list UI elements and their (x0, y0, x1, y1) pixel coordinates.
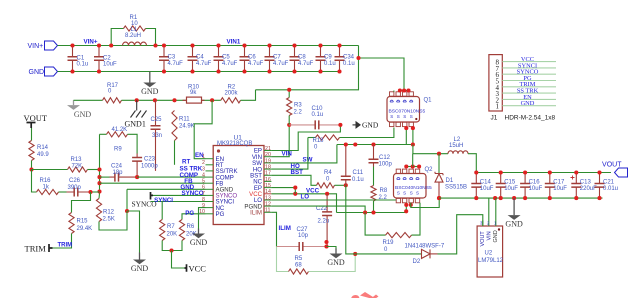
wire R8 to pgnd line (373, 201, 375, 213)
junction (338, 123, 342, 127)
svg-text:8: 8 (202, 197, 205, 203)
junction (97, 43, 101, 47)
wire SYNCO to pin7 (153, 194, 206, 196)
resistor R12 (96, 199, 101, 222)
svg-text:49.9: 49.9 (37, 152, 49, 158)
junction (499, 170, 503, 174)
wire (88, 169, 100, 171)
junction (324, 240, 328, 244)
svg-text:S: S (397, 114, 400, 119)
junction (411, 142, 415, 146)
svg-text:GND: GND (362, 121, 379, 130)
capacitor C7 (265, 46, 275, 72)
svg-text:4.7uF: 4.7uF (168, 61, 184, 67)
svg-text:LO: LO (301, 194, 310, 201)
svg-text:6: 6 (202, 185, 205, 191)
svg-text:HDR-M-2.54_1x8: HDR-M-2.54_1x8 (505, 115, 556, 122)
svg-text:C24: C24 (111, 164, 123, 170)
capacitor C12 (369, 145, 379, 167)
ground GND1 (chassis) (131, 100, 147, 117)
svg-text:C22: C22 (316, 206, 328, 212)
junction (411, 126, 415, 130)
wire R1 left leg (111, 29, 123, 46)
junction (97, 167, 101, 171)
svg-text:R11: R11 (179, 117, 190, 123)
svg-text:VCC: VCC (189, 264, 207, 274)
wire EP15 to VCC (271, 188, 295, 194)
junction (404, 126, 408, 130)
svg-text:Q2: Q2 (425, 167, 434, 173)
capacitor C3 (159, 46, 169, 72)
wire U2 VIN up (488, 198, 490, 226)
svg-text:16: 16 (265, 177, 271, 183)
svg-text:68: 68 (295, 263, 302, 269)
wire GND rail (58, 71, 340, 73)
wire COMP to pin4 (137, 176, 205, 178)
resistor R2 (221, 98, 241, 103)
junction (324, 244, 328, 248)
junction (109, 43, 113, 47)
wire VIN drop to R2/R3 row (256, 46, 359, 90)
svg-text:R18: R18 (313, 138, 325, 144)
watermark (partial red logo) (351, 292, 379, 299)
pin 1 EN (206, 158, 214, 160)
svg-text:VIN: VIN (486, 231, 492, 240)
svg-text:1k: 1k (43, 185, 50, 191)
svg-text:VIN: VIN (282, 150, 293, 157)
junction (512, 196, 516, 200)
wire EN net (194, 100, 212, 158)
capacitor C22 (322, 194, 332, 247)
junction (363, 210, 367, 214)
junction (97, 175, 101, 179)
svg-text:GND1: GND1 (125, 120, 146, 129)
svg-text:14: 14 (265, 189, 271, 195)
svg-text:R15: R15 (77, 219, 89, 225)
resistor R8 (371, 186, 376, 202)
junction (125, 209, 129, 213)
svg-text:R19: R19 (383, 240, 395, 246)
pin 14 VCC (264, 193, 271, 195)
svg-text:C7: C7 (273, 55, 281, 61)
capacitor C17 (545, 173, 555, 199)
wire PG row (182, 214, 206, 217)
wire AGND to pin6 (127, 188, 206, 190)
junction (574, 170, 578, 174)
svg-text:S: S (397, 191, 400, 196)
junction (493, 196, 497, 200)
pin 11 ILIM (264, 211, 271, 213)
pin 10 PG (206, 213, 214, 215)
pin 6 AGND (206, 188, 214, 190)
junction (70, 43, 74, 47)
svg-text:20: 20 (265, 152, 271, 158)
C13 polarity (571, 176, 575, 180)
svg-text:1: 1 (496, 103, 500, 111)
pin J1-5 PG (502, 80, 556, 82)
ground GND (gray) (67, 100, 91, 119)
junction (417, 164, 421, 168)
wire GND to R17 (74, 99, 103, 101)
wire VIN to Q1 drain (359, 58, 405, 89)
junction (29, 167, 33, 171)
wire HO net (271, 138, 308, 170)
junction (337, 69, 341, 73)
junction (474, 196, 478, 200)
capacitor C8 (290, 46, 300, 72)
junction (409, 203, 413, 207)
ground GND (190, 229, 208, 248)
junction (406, 88, 410, 92)
capacitor C5 (214, 46, 224, 72)
pin 5 FB (206, 182, 214, 184)
regulator U2 LM79L12 body (477, 226, 503, 277)
capacitor C24 (110, 173, 138, 182)
diode D1 SS515B (435, 172, 443, 198)
svg-text:SYNCI: SYNCI (154, 197, 173, 204)
pin 12 PGND (264, 205, 271, 207)
svg-text:7: 7 (202, 191, 205, 197)
junction (292, 43, 296, 47)
port GND (29, 67, 58, 76)
svg-text:4.7uF: 4.7uF (248, 61, 264, 67)
pin J1-7 SYNCI (502, 67, 556, 69)
wire SYNCI to R7 (161, 202, 163, 220)
junction (371, 142, 375, 146)
wire ILIM to R5 (277, 247, 289, 272)
resistor R14 (29, 141, 34, 161)
junction (404, 209, 408, 213)
junction (135, 175, 139, 179)
svg-text:GND: GND (190, 238, 208, 247)
junction (548, 170, 552, 174)
svg-text:PG: PG (216, 211, 225, 218)
svg-text:R12: R12 (103, 210, 115, 216)
junction (287, 88, 291, 92)
svg-text:C3: C3 (168, 55, 176, 61)
pin J1-6 SYNCO (502, 73, 556, 75)
junction (153, 43, 157, 47)
wire (373, 167, 375, 186)
svg-text:4.7uF: 4.7uF (196, 61, 212, 67)
capacitor C4 (188, 46, 198, 72)
svg-text:GND: GND (505, 220, 523, 229)
junction (135, 98, 139, 102)
svg-text:12: 12 (265, 202, 271, 208)
junction (162, 69, 166, 73)
svg-text:C11: C11 (353, 170, 364, 176)
resistor R18 (316, 135, 340, 140)
transistor Q2 BSC040N10NS5 (394, 174, 427, 199)
svg-text:72K: 72K (72, 164, 83, 170)
connector J1 HDR-M-2.54_1x8 body (489, 55, 502, 111)
svg-text:D2: D2 (413, 259, 421, 265)
junction (88, 190, 92, 194)
svg-text:1: 1 (202, 154, 205, 160)
svg-text:20K: 20K (167, 232, 178, 238)
junction (574, 196, 578, 200)
svg-text:0.1u: 0.1u (352, 177, 364, 183)
pin 4 COMP (206, 176, 214, 178)
svg-text:D1: D1 (446, 178, 454, 184)
wire R9 to C23 (128, 134, 138, 153)
svg-text:10uF: 10uF (529, 186, 543, 192)
svg-text:10: 10 (199, 209, 205, 215)
svg-text:9k: 9k (190, 90, 197, 96)
wire pgnd line (337, 212, 407, 214)
svg-text:C17: C17 (553, 180, 565, 186)
svg-text:TRIM: TRIM (25, 244, 47, 254)
svg-text:21: 21 (265, 146, 271, 152)
svg-text:SS515B: SS515B (445, 185, 467, 191)
wire VCC net (271, 194, 336, 213)
junction (404, 164, 408, 168)
svg-text:15uH: 15uH (449, 143, 463, 149)
capacitor C14 (471, 173, 481, 199)
svg-text:R13: R13 (71, 157, 83, 163)
svg-text:C4: C4 (196, 55, 204, 61)
svg-text:4.7uF: 4.7uF (222, 61, 238, 67)
capacitor C34 (335, 46, 345, 72)
svg-text:C12: C12 (379, 155, 391, 161)
svg-text:J1: J1 (491, 115, 498, 122)
svg-text:17: 17 (265, 171, 271, 177)
svg-text:C6: C6 (248, 55, 256, 61)
svg-text:R6: R6 (187, 224, 195, 230)
wire SW to L2 (413, 145, 448, 154)
svg-text:18: 18 (265, 165, 271, 171)
svg-text:C25: C25 (151, 117, 163, 123)
junction (70, 69, 74, 73)
op-amp U1 MK9218CQB body (213, 146, 264, 225)
pin J1-3 SS TRK (502, 92, 556, 94)
svg-text:2.5K: 2.5K (103, 217, 115, 223)
port VOUT tick (27, 123, 36, 129)
svg-text:0.1u: 0.1u (324, 61, 336, 67)
svg-text:BST: BST (291, 169, 304, 176)
svg-text:1000p: 1000p (141, 164, 158, 170)
junction (267, 69, 271, 73)
svg-text:2.2: 2.2 (294, 110, 303, 116)
svg-text:MK9218CQB: MK9218CQB (217, 141, 252, 147)
resistor R16 (37, 189, 59, 194)
svg-text:PG: PG (185, 210, 194, 217)
svg-text:C5: C5 (222, 55, 230, 61)
inductor L2 (448, 151, 468, 154)
capacitor C15 (496, 173, 506, 199)
wire R5 to D2 line (309, 254, 356, 272)
wire FB to R12 (98, 194, 101, 199)
wire Q2 src down (405, 203, 407, 213)
pin 8 SYNCI (206, 201, 214, 203)
wire U2 GND up (495, 198, 497, 226)
wire to R15 (72, 192, 91, 213)
wire Q1 g stub (393, 91, 395, 92)
junction (523, 196, 527, 200)
svg-text:13: 13 (265, 195, 271, 201)
port VIN+ (28, 41, 58, 50)
svg-text:VIN1: VIN1 (227, 39, 241, 46)
resistor R1 (124, 26, 146, 31)
junction (353, 142, 357, 146)
svg-text:2: 2 (202, 160, 205, 166)
junction (267, 43, 271, 47)
port VCC tick (185, 264, 187, 272)
port SYNCO tick (151, 192, 154, 200)
pin 9 NC (206, 207, 214, 209)
pin 2 RT (206, 164, 214, 166)
wire R1 right leg (146, 29, 156, 46)
wire SW rail (337, 144, 413, 146)
svg-text:GND: GND (29, 69, 45, 76)
resistor R13 (68, 167, 88, 172)
svg-text:41.2K: 41.2K (112, 127, 128, 133)
wire to R13 (32, 169, 68, 171)
svg-text:S: S (416, 191, 419, 196)
svg-text:VOUT: VOUT (602, 162, 622, 169)
junction (97, 69, 101, 73)
svg-text:R5: R5 (295, 256, 303, 262)
svg-text:C13: C13 (580, 180, 592, 186)
svg-text:GND: GND (74, 110, 92, 119)
junction (153, 98, 157, 102)
wire out gnd rail (439, 197, 603, 199)
svg-text:BSC070N10NS5: BSC070N10NS5 (389, 109, 426, 115)
wire AGND down (126, 189, 128, 211)
junction (597, 196, 601, 200)
svg-text:0.1u: 0.1u (343, 61, 355, 67)
capacitor C1 (68, 46, 78, 72)
wire VIN+ rail (58, 45, 359, 47)
junction (169, 248, 173, 252)
svg-text:BSC040N10NS5: BSC040N10NS5 (395, 185, 432, 191)
svg-text:Q1: Q1 (424, 98, 433, 104)
svg-text:0.1u: 0.1u (312, 112, 324, 118)
resistor R4 (317, 183, 335, 188)
wire SYNCI to pin8 (151, 201, 206, 203)
pin J1-8 VCC (502, 61, 556, 63)
svg-text:C8: C8 (298, 55, 306, 61)
wire D2 to U2 VOUT (438, 215, 483, 254)
svg-text:10uF: 10uF (103, 62, 117, 68)
junction (402, 88, 406, 92)
svg-text:390p: 390p (68, 185, 82, 191)
svg-text:24.9K: 24.9K (179, 124, 195, 130)
svg-text:U2: U2 (485, 251, 493, 257)
svg-text:VOUT: VOUT (480, 231, 486, 247)
resistor R15 (69, 213, 74, 234)
wire to R19 (365, 213, 385, 236)
svg-text:SYNCO: SYNCO (182, 190, 204, 197)
pin 21 EP (264, 150, 271, 152)
resistor R17 (103, 98, 122, 103)
wire PG to R6 (181, 217, 183, 220)
wire FB to pin5 (100, 182, 206, 184)
capacitor C16 (520, 173, 530, 199)
svg-text:33n: 33n (152, 133, 162, 139)
port VOUT (602, 162, 627, 178)
pin 13 LO (264, 199, 271, 201)
wire U2 VOUT stub (482, 221, 484, 227)
ground GND (right-pointing) (353, 121, 379, 130)
resistor R6 (179, 220, 184, 241)
pin 7 SYNCO (206, 194, 214, 196)
junction (190, 43, 194, 47)
svg-text:10uF: 10uF (553, 186, 567, 192)
svg-text:C9: C9 (324, 55, 332, 61)
capacitor C10 (289, 120, 340, 129)
wire (59, 191, 67, 193)
wire R2 to VIN row (241, 90, 256, 101)
svg-text:8.2uH: 8.2uH (125, 33, 141, 39)
wire SW net (271, 145, 337, 163)
wire Q1 src1 (405, 127, 407, 145)
wire ILIM net (271, 212, 276, 246)
junction (287, 123, 291, 127)
junction (97, 181, 101, 185)
wire BST net (271, 175, 316, 185)
svg-text:R9: R9 (114, 147, 122, 153)
junction (210, 98, 214, 102)
svg-text:5: 5 (202, 179, 205, 185)
junction (404, 203, 408, 207)
pin 3 SS/TRK (206, 170, 214, 172)
junction (293, 192, 297, 196)
svg-text:3: 3 (202, 166, 205, 172)
junction (325, 192, 329, 196)
ground GND (131, 253, 149, 274)
svg-text:1N4148WSF-7: 1N4148WSF-7 (405, 244, 445, 250)
svg-text:C26: C26 (69, 178, 81, 184)
wire R11 to RT (174, 141, 176, 165)
junction (548, 196, 552, 200)
svg-text:R7: R7 (167, 224, 175, 230)
wire (100, 176, 110, 178)
wire to VCC port (172, 251, 185, 269)
svg-text:R4: R4 (324, 170, 332, 176)
junction (172, 98, 176, 102)
wire L2 to VOUT rail (468, 154, 476, 173)
wire R12 bottom loop (99, 211, 127, 230)
capacitor C23 (132, 154, 142, 178)
junction (337, 43, 341, 47)
capacitor C13 (571, 173, 581, 199)
svg-text:R14: R14 (37, 145, 49, 151)
capacitor C25 (151, 100, 161, 171)
junction (437, 196, 441, 200)
wire AGND to GND (127, 211, 140, 253)
junction (293, 186, 297, 190)
wire Q1 drain bus (399, 90, 409, 92)
svg-text:ILIM: ILIM (279, 225, 291, 232)
wire PGND net (271, 206, 365, 212)
wire VOUT to R14 (31, 128, 33, 141)
junction (344, 183, 348, 187)
svg-text:10p: 10p (298, 233, 309, 239)
pin J1-2 EN (502, 98, 556, 100)
junction (292, 69, 296, 73)
svg-text:VIN+: VIN+ (84, 39, 98, 46)
junction (437, 152, 441, 156)
svg-text:GND: GND (131, 264, 149, 273)
svg-text:11: 11 (265, 208, 271, 214)
wire (288, 90, 290, 98)
svg-text:C23: C23 (144, 157, 156, 163)
svg-text:0.01u: 0.01u (603, 186, 618, 192)
wire (91, 191, 100, 193)
wire SW to Q2 drain (412, 154, 414, 167)
pin 20 VIN (264, 156, 271, 158)
